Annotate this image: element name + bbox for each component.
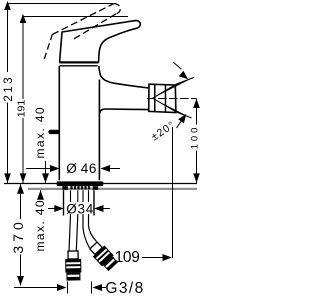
swivel leader arrow lower: [177, 121, 182, 128]
gasket right blob: [93, 186, 99, 190]
label 191: [17, 99, 26, 118]
hose connector A vertical: [65, 251, 82, 281]
faucet body and spout outline: [59, 66, 149, 180]
extension line top (213): [8, 3, 114, 5]
dim 46 right arrow: [103, 168, 120, 170]
arrow down 100: [193, 173, 200, 183]
extension line 109 vertical: [172, 127, 174, 258]
aerator ring line 2: [165, 85, 167, 112]
dimension 109 line right: [142, 257, 169, 259]
svg-text:370: 370: [10, 218, 26, 253]
arrow up 191: [20, 14, 27, 23]
deck line gray: [28, 188, 197, 190]
dimension max.40 lower line: [40, 190, 42, 199]
dim 34 left arrow: [48, 208, 62, 210]
swivel leader arrow upper: [173, 62, 182, 69]
arrow down max.40 upper: [42, 173, 49, 183]
G3/8 arrow left-pointing: [95, 287, 106, 289]
deck line black: [4, 183, 197, 185]
svg-text:191: 191: [16, 100, 28, 118]
dashed raised lever top edge: [52, 4, 114, 35]
svg-text:G3/8: G3/8: [105, 280, 144, 297]
aerator ring line 1: [154, 84, 156, 111]
arrow up 370: [17, 184, 24, 194]
arrow up 100: [193, 99, 200, 108]
svg-text:Ø: Ø: [66, 161, 77, 176]
label 370: [12, 219, 23, 255]
right hose lines curving: [83, 215, 90, 248]
arrow right 109: [163, 254, 173, 261]
spout nozzle / aerator cylinder: [149, 84, 176, 112]
G3/8 tick left: [67, 282, 69, 294]
gasket ribs: [72, 186, 90, 189]
label diameter 34 background: [65, 202, 93, 214]
arrow up max.40 lower: [37, 190, 44, 200]
dimension 109 left stub: [109, 257, 115, 259]
swivel ray upper: [153, 77, 194, 98]
svg-text:213: 213: [3, 75, 15, 102]
pull rod knob: [48, 130, 59, 134]
spout centerline (dashed): [147, 98, 197, 100]
svg-text:109: 109: [115, 249, 140, 266]
dim 46 left arrow: [26, 168, 57, 170]
arrow up 213: [4, 1, 11, 10]
dimension 213 vertical line: [7, 4, 9, 183]
svg-text:46: 46: [81, 161, 97, 176]
svg-text:Ø34: Ø34: [66, 202, 94, 217]
threaded shank: [64, 190, 95, 215]
dashed raised lever left edge: [44, 35, 52, 60]
G3/8 tick right: [91, 282, 93, 294]
hose connector B angled: [88, 240, 119, 272]
svg-text:100: 100: [190, 125, 201, 150]
arrow down 370: [17, 276, 24, 286]
dashed raised lever bottom edge: [72, 14, 116, 40]
label 213: [4, 72, 13, 103]
faucet base black bar: [57, 181, 104, 186]
extension line (191): [23, 16, 128, 18]
dimension 191 vertical line: [22, 17, 24, 183]
svg-text:max. 40: max. 40: [33, 106, 47, 159]
shank inner lines / hose tails: [71, 190, 89, 215]
dimension 100 line: [196, 99, 198, 183]
gasket left blob: [62, 186, 68, 190]
arrow down 191: [20, 173, 27, 183]
label 100: [190, 125, 198, 151]
arrow down 213: [4, 173, 11, 183]
dim 34 right arrow: [96, 208, 111, 210]
dimension 370 line: [20, 184, 22, 285]
svg-text:max. 40: max. 40: [33, 199, 47, 252]
G3/8 arrow right-pointing: [14, 287, 60, 289]
left hose lines: [69, 215, 78, 251]
dashed raised lever tip: [114, 4, 120, 14]
faucet lever and handle block: [60, 20, 141, 62]
handle joint double line: [60, 63, 99, 66]
dimension max.40 upper line: [45, 161, 47, 183]
swivel ray lower: [153, 98, 192, 118]
